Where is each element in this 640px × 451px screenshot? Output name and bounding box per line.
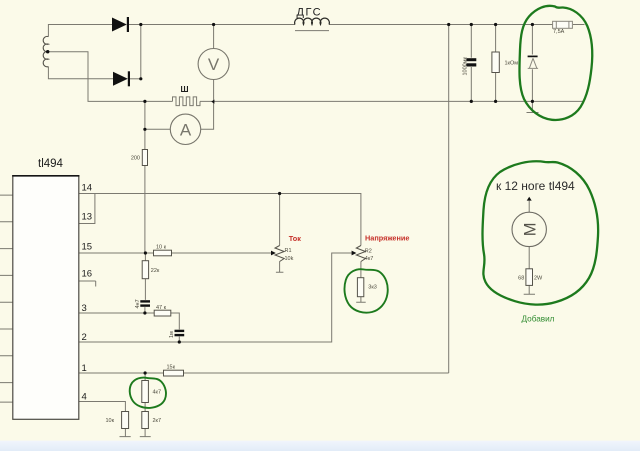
svg-text:1000мк: 1000мк xyxy=(462,56,468,75)
capacitor C 1m at pin2 xyxy=(169,329,184,338)
resistor 15k horizontal xyxy=(164,370,184,376)
wire pin13 loop xyxy=(79,194,95,224)
node dot pin1 junction xyxy=(144,371,147,374)
voltmeter V xyxy=(198,49,229,80)
svg-text:1: 1 xyxy=(82,363,87,374)
svg-text:ДГС: ДГС xyxy=(297,7,323,19)
wire 1kOhm branch xyxy=(495,25,497,102)
ground tick under zener xyxy=(527,112,539,114)
svg-text:15: 15 xyxy=(82,242,93,253)
node center tap dot xyxy=(46,50,49,53)
wire coil top to D1 anode xyxy=(48,25,112,37)
svg-text:47 к: 47 к xyxy=(156,305,167,311)
node dot D2 cathode xyxy=(139,77,142,80)
svg-text:4: 4 xyxy=(82,392,87,403)
svg-text:200: 200 xyxy=(131,156,140,162)
wire pin2 rail up to R2 wiper xyxy=(79,253,353,342)
green annotation circle big right around motor xyxy=(482,161,598,304)
svg-text:2W: 2W xyxy=(534,276,543,282)
capacitor C 4n7 at pin3 xyxy=(135,299,150,308)
node dot pin2 junction xyxy=(178,340,181,343)
svg-text:15к: 15к xyxy=(167,365,176,371)
svg-text:68: 68 xyxy=(518,276,524,282)
wire V meter branches xyxy=(213,25,215,102)
svg-text:3: 3 xyxy=(82,303,87,314)
potentiometer R1 10k xyxy=(271,246,294,262)
wire pin1 junction down through 4k7 2k7 to ground xyxy=(140,373,151,437)
wire R1 pot top and bottom with ground xyxy=(276,194,284,273)
green annotation circle around fuse and zener xyxy=(519,6,592,120)
svg-text:3к3: 3к3 xyxy=(368,285,377,291)
svg-text:R2: R2 xyxy=(365,249,372,255)
svg-text:7,5А: 7,5А xyxy=(553,29,565,35)
resistor 4k7 xyxy=(142,381,149,403)
shunt Sh comb symbol xyxy=(173,97,201,106)
node dot R1 top xyxy=(278,192,281,195)
node arrow above motor xyxy=(527,197,532,201)
svg-text:1кОм: 1кОм xyxy=(505,61,519,67)
resistor 47k horizontal xyxy=(154,310,171,316)
svg-text:M: M xyxy=(521,223,539,237)
fuse 7.5A xyxy=(553,21,573,35)
wire lower rail right of shunt xyxy=(200,100,585,102)
ammeter A xyxy=(170,114,200,144)
svg-text:13: 13 xyxy=(82,212,93,223)
wire motor branch xyxy=(524,201,535,295)
IC U1 tl494 xyxy=(13,176,79,420)
svg-text:14: 14 xyxy=(82,183,93,194)
wire A junction down through R200 to pin15 rail xyxy=(144,129,146,253)
svg-text:16: 16 xyxy=(82,269,93,280)
wire D2 cathode to vertical xyxy=(130,78,141,80)
svg-text:Ток: Ток xyxy=(289,234,301,243)
wire vertical joining D1 D2 cathodes xyxy=(140,25,142,79)
svg-text:2: 2 xyxy=(82,332,87,343)
wire 10k to ground xyxy=(120,429,131,437)
transformer winding T1 xyxy=(43,36,48,66)
green annotation circle around 4k7 xyxy=(130,378,166,408)
node dots top rail xyxy=(139,23,142,26)
wire pin3 rail xyxy=(79,313,180,330)
resistor 3k3 xyxy=(357,278,363,297)
svg-text:Добавил: Добавил xyxy=(522,315,555,324)
svg-text:4к7: 4к7 xyxy=(153,390,162,396)
node dot pin15 junction xyxy=(144,251,147,254)
svg-text:2к7: 2к7 xyxy=(153,418,162,424)
svg-text:10 к: 10 к xyxy=(156,245,167,251)
svg-text:1м: 1м xyxy=(169,331,175,338)
diode D2 xyxy=(113,71,130,86)
IC left pin stubs xyxy=(0,195,13,402)
svg-text:R1: R1 xyxy=(285,248,292,254)
resistor 10k horizontal pin15 xyxy=(154,250,172,256)
svg-text:к 12 ноге tl494: к 12 ноге tl494 xyxy=(496,179,575,193)
wire pin15 rail xyxy=(79,252,272,254)
wire right feedback vertical xyxy=(448,25,450,374)
resistor 22k xyxy=(142,261,148,279)
potentiometer R2 xyxy=(352,246,374,263)
wire pin4 to 10k xyxy=(79,402,126,412)
wire center tap to lower rail xyxy=(48,52,173,102)
svg-text:V: V xyxy=(208,55,220,74)
svg-text:A: A xyxy=(180,121,192,140)
resistor 2k7 xyxy=(142,412,149,429)
current direction arrow on lower rail xyxy=(211,100,214,104)
svg-text:Напряжение: Напряжение xyxy=(365,233,409,242)
wire R2 bottom to 3k3 and ground xyxy=(356,262,366,303)
resistor 1kOhm xyxy=(492,52,499,73)
svg-text:tl494: tl494 xyxy=(38,158,64,170)
svg-text:4к7: 4к7 xyxy=(365,256,374,262)
wire A meter branches xyxy=(145,101,214,129)
resistor 68 2W xyxy=(526,269,533,286)
zener diode VD xyxy=(528,56,539,68)
wire zener branch xyxy=(531,25,533,113)
wire top rail xyxy=(128,24,585,26)
wire pin16 stub with tick xyxy=(79,281,96,287)
wire cap 1000uF branch xyxy=(470,25,472,102)
svg-text:4н7: 4н7 xyxy=(135,299,141,308)
svg-text:22к: 22к xyxy=(151,268,160,274)
svg-text:10k: 10k xyxy=(285,256,294,262)
wire coil bottom to D2 anode xyxy=(48,67,113,79)
svg-text:Ш: Ш xyxy=(181,85,189,94)
green annotation circle around 3k3 xyxy=(344,269,387,312)
wire pin1 rail xyxy=(79,372,449,374)
diode D1 xyxy=(112,17,129,32)
node dot A meter left xyxy=(143,128,146,131)
wire pin14 rail to R2 top xyxy=(79,194,361,246)
wire cap2 to pin2 rail xyxy=(178,337,180,343)
resistor R200 xyxy=(142,150,147,166)
svg-text:10к: 10к xyxy=(105,418,114,424)
wire 22k branch down to cap xyxy=(144,253,147,313)
node dot pin3 junction xyxy=(143,311,146,314)
node dots lower rail xyxy=(143,100,146,103)
resistor 10k vertical xyxy=(122,412,129,429)
inductor DGS xyxy=(295,18,330,24)
motor M1 xyxy=(512,212,546,246)
capacitor C 1000uF xyxy=(462,56,476,75)
